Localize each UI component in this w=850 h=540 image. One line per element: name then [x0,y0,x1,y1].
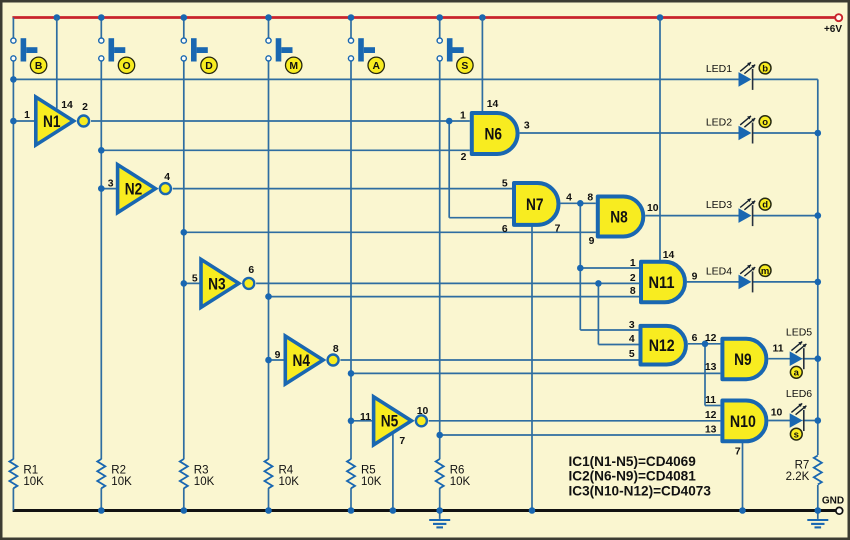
svg-text:o: o [762,117,768,128]
svg-text:R1: R1 [23,465,38,477]
svg-text:A: A [372,61,380,72]
svg-text:R2: R2 [111,465,126,477]
svg-text:d: d [762,200,768,211]
svg-text:+6V: +6V [824,24,842,35]
svg-text:GND: GND [822,496,844,507]
svg-text:10K: 10K [194,476,215,488]
svg-text:14: 14 [663,250,675,261]
svg-text:2.2K: 2.2K [786,471,810,483]
svg-text:2: 2 [82,102,88,113]
svg-text:IC2(N6-N9)=CD4081: IC2(N6-N9)=CD4081 [569,469,697,484]
svg-text:2: 2 [630,273,636,284]
svg-text:12: 12 [705,333,717,344]
svg-text:6: 6 [248,265,254,276]
svg-text:4: 4 [629,334,635,345]
svg-text:N1: N1 [43,112,61,131]
svg-text:8: 8 [333,344,339,355]
svg-text:N7: N7 [526,195,544,214]
svg-text:11: 11 [773,344,784,355]
svg-text:7: 7 [555,224,561,235]
svg-text:14: 14 [487,99,499,110]
svg-text:R3: R3 [194,465,209,477]
svg-text:N10: N10 [730,412,756,431]
svg-text:9: 9 [589,236,595,247]
svg-text:LED2: LED2 [706,116,732,128]
svg-text:LED5: LED5 [786,326,812,338]
svg-text:8: 8 [587,193,593,204]
svg-text:7: 7 [735,446,741,457]
svg-text:10K: 10K [450,476,471,488]
svg-text:LED4: LED4 [706,265,732,277]
svg-text:N4: N4 [292,351,310,370]
svg-text:a: a [794,368,800,379]
svg-text:14: 14 [61,100,73,111]
svg-text:R6: R6 [450,465,465,477]
svg-text:5: 5 [629,349,635,360]
svg-text:6: 6 [692,333,698,344]
svg-text:B: B [35,61,43,72]
svg-text:8: 8 [630,286,636,297]
svg-text:LED3: LED3 [706,199,732,211]
svg-text:9: 9 [275,350,281,361]
svg-text:s: s [794,430,799,441]
svg-text:1: 1 [630,258,636,269]
svg-text:11: 11 [705,395,716,406]
svg-text:O: O [122,61,130,72]
svg-text:6: 6 [502,224,508,235]
svg-text:LED1: LED1 [706,63,732,75]
svg-text:IC1(N1-N5)=CD4069: IC1(N1-N5)=CD4069 [569,454,697,469]
svg-text:N12: N12 [649,336,675,355]
svg-text:N11: N11 [649,273,675,292]
svg-text:13: 13 [705,425,717,436]
svg-text:D: D [205,61,213,72]
svg-text:10K: 10K [111,476,132,488]
svg-text:11: 11 [360,412,371,423]
svg-text:10K: 10K [23,476,44,488]
svg-text:13: 13 [705,362,717,373]
svg-text:N6: N6 [484,124,502,143]
svg-text:10: 10 [771,408,783,419]
svg-text:4: 4 [566,193,572,204]
svg-text:M: M [289,61,298,72]
svg-text:12: 12 [705,410,717,421]
svg-text:10: 10 [417,406,429,417]
svg-text:10: 10 [647,203,659,214]
svg-text:5: 5 [502,179,508,190]
svg-text:IC3(N10-N12)=CD4073: IC3(N10-N12)=CD4073 [569,483,712,498]
svg-text:S: S [461,61,468,72]
svg-text:9: 9 [692,272,698,283]
svg-text:2: 2 [461,152,467,163]
svg-text:3: 3 [108,179,114,190]
svg-text:N9: N9 [734,350,752,369]
svg-text:1: 1 [460,111,466,122]
svg-text:R5: R5 [361,465,376,477]
svg-text:b: b [762,63,768,74]
svg-text:3: 3 [629,320,635,331]
svg-text:N3: N3 [208,274,226,293]
svg-text:N8: N8 [610,207,628,226]
svg-text:10K: 10K [279,476,300,488]
svg-text:5: 5 [192,274,198,285]
svg-text:LED6: LED6 [786,388,812,400]
svg-text:R4: R4 [279,465,294,477]
svg-text:N2: N2 [125,180,143,199]
svg-text:N5: N5 [381,412,399,431]
svg-text:R7: R7 [795,460,810,472]
svg-text:7: 7 [399,436,405,447]
svg-text:m: m [761,266,769,277]
svg-text:1: 1 [24,110,30,121]
svg-text:3: 3 [524,121,530,132]
svg-text:4: 4 [164,172,170,183]
svg-text:10K: 10K [361,476,382,488]
